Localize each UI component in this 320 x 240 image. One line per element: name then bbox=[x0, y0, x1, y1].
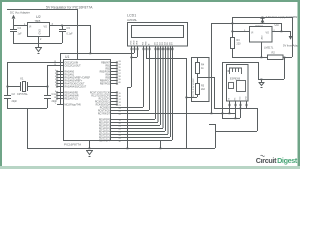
svg-text:3.3V down supply for ESP8266: 3.3V down supply for ESP8266 bbox=[266, 16, 301, 19]
junction C3 tap on 5V rail bbox=[61, 25, 63, 27]
pin labels tiny bbox=[229, 96, 248, 101]
svg-text:1uF: 1uF bbox=[18, 33, 23, 36]
capacitor C1 bottom lead bbox=[47, 99, 49, 108]
svg-text:RB3/PGM: RB3/PGM bbox=[100, 71, 110, 73]
svg-text:RD3/PSP3: RD3/PSP3 bbox=[99, 128, 111, 130]
wire lcd d3 bbox=[117, 51, 163, 129]
antenna meander bbox=[228, 68, 242, 74]
wire esp cs loop right bbox=[258, 57, 285, 80]
junction ESP pin3 on rail A bbox=[239, 108, 241, 110]
svg-text:RD7/PSP7: RD7/PSP7 bbox=[99, 140, 111, 142]
wire lcd vdd to rail bbox=[134, 51, 136, 53]
diode D1 leads bbox=[262, 17, 264, 23]
svg-text:RB6/PGC: RB6/PGC bbox=[100, 80, 110, 82]
svg-text:RC5/SDO: RC5/SDO bbox=[100, 107, 110, 109]
wire divider feed vertical bbox=[186, 58, 188, 148]
svg-text:OSC2/CLKOUT: OSC2/CLKOUT bbox=[65, 65, 82, 67]
power flag arrow up (DC Vcc Adapter) bbox=[12, 15, 16, 19]
MCU right pin labels bbox=[90, 62, 111, 142]
MCU left pin x marks bbox=[56, 71, 58, 100]
junction U3 adj node bbox=[260, 57, 262, 59]
svg-text:RC1/T1OSI/CCP2: RC1/T1OSI/CCP2 bbox=[91, 95, 110, 97]
wire lcd d1 bbox=[117, 51, 158, 123]
svg-text:2k2: 2k2 bbox=[201, 88, 206, 91]
svg-text:RA5/AN4/SS/C2OUT: RA5/AN4/SS/C2OUT bbox=[65, 85, 87, 88]
svg-text:U2: U2 bbox=[36, 15, 41, 19]
wire lcd vee bundle bbox=[131, 51, 138, 58]
junction VDD rail tee bbox=[89, 53, 91, 55]
wire lcd d5 bbox=[117, 51, 168, 135]
svg-text:U1: U1 bbox=[65, 55, 69, 59]
resistor R4 bbox=[196, 57, 210, 78]
LCD pin stubs bbox=[132, 46, 173, 51]
svg-text:LCD1: LCD1 bbox=[127, 14, 136, 18]
svg-text:VO: VO bbox=[266, 32, 270, 35]
junction ESP pin2 on rail2 bbox=[234, 118, 236, 120]
LCD pin labels vertical bbox=[131, 40, 174, 45]
wire 5v adapter rail bbox=[211, 23, 281, 25]
wire lcd vss down to ground bbox=[127, 51, 132, 148]
junction crystal right node bbox=[47, 86, 49, 88]
wire MCU vss down bbox=[89, 141, 91, 148]
svg-text:MCLR/Vpp/THV: MCLR/Vpp/THV bbox=[65, 104, 82, 106]
svg-text:PIC16F877A: PIC16F877A bbox=[64, 143, 81, 147]
svg-text:RA2/AN2/VREF-/CVREF: RA2/AN2/VREF-/CVREF bbox=[65, 76, 91, 79]
junction LCD VSS on ground bus bbox=[126, 148, 128, 150]
resistor divider box bbox=[192, 58, 210, 102]
wire regulator output 5V bbox=[50, 25, 90, 27]
capacitor C2 bottom lead bbox=[7, 99, 9, 108]
ground symbol under MCU bbox=[86, 151, 93, 157]
ground symbol right circuit bbox=[259, 79, 265, 88]
wire crystal left vertical bbox=[7, 62, 9, 95]
wire lcd d6 grounded bbox=[160, 140, 162, 148]
junction VSS-VEE join bbox=[130, 57, 132, 59]
svg-text:VI: VI bbox=[251, 32, 254, 35]
svg-text:RD4/PSP4: RD4/PSP4 bbox=[99, 131, 111, 133]
svg-text:C3: C3 bbox=[67, 26, 71, 30]
wire top 5V distribution line bbox=[7, 9, 77, 11]
capacitor C3 bbox=[59, 30, 66, 32]
svg-text:VI: VI bbox=[29, 26, 32, 29]
wire rail jog right bbox=[146, 51, 186, 59]
svg-text:RE0/AN5/RD: RE0/AN5/RD bbox=[65, 91, 79, 94]
wire 3.3v rail top right bbox=[232, 17, 292, 19]
wire lcd rw bbox=[117, 51, 150, 111]
ESP8266 module bbox=[227, 65, 249, 102]
svg-text:RB5: RB5 bbox=[106, 77, 111, 79]
svg-text:220: 220 bbox=[237, 43, 242, 46]
svg-text:VDD: VDD bbox=[134, 40, 136, 45]
wire divider bottom link bbox=[186, 94, 198, 98]
svg-text:RB2: RB2 bbox=[106, 68, 111, 70]
wire right side vertical from top line bbox=[292, 17, 294, 57]
svg-text:22pF: 22pF bbox=[12, 100, 18, 103]
svg-text:RB1: RB1 bbox=[106, 65, 111, 67]
junction RD6 ground tap bbox=[159, 148, 161, 150]
svg-text:RC3/SCK/SCL: RC3/SCK/SCL bbox=[95, 101, 111, 103]
svg-text:Cırcuit: Cırcuit bbox=[256, 156, 277, 165]
capacitor C4 body bbox=[10, 30, 17, 32]
esp pin4 drop bbox=[246, 101, 248, 108]
wire MCLR pullup vertical bbox=[60, 53, 62, 104]
svg-text:DC Vcc Adapter: DC Vcc Adapter bbox=[10, 11, 30, 15]
svg-text:RS: RS bbox=[143, 41, 145, 45]
junction right ground node bbox=[260, 79, 262, 81]
junction U3 input node bbox=[280, 31, 282, 33]
resistor R3 lower lead bbox=[232, 48, 234, 57]
wire lcd rs bbox=[117, 51, 144, 108]
wire osc2 bbox=[47, 65, 57, 67]
junction x211 on rx rail bbox=[210, 113, 212, 115]
svg-text:5V TO 3.3V LOGIC: 5V TO 3.3V LOGIC bbox=[193, 78, 195, 97]
wire esp loop right side bbox=[209, 108, 258, 148]
wire regulator ground rail bbox=[13, 37, 62, 47]
wire crystal horizontal bbox=[7, 86, 47, 88]
wire MCLR pin bbox=[57, 104, 63, 106]
svg-text:Digest: Digest bbox=[277, 156, 298, 165]
wire regulator input bbox=[13, 25, 27, 27]
regulator U3 LM317 bbox=[244, 23, 279, 42]
capacitor C1 body bbox=[44, 96, 51, 99]
svg-text:RA1/AN1: RA1/AN1 bbox=[65, 73, 75, 76]
wire u3 out pin right bbox=[272, 31, 290, 33]
svg-text:RC6/TX/CK: RC6/TX/CK bbox=[98, 110, 110, 112]
svg-text:RD0/PSP0: RD0/PSP0 bbox=[99, 119, 111, 121]
svg-text:RD2/PSP2: RD2/PSP2 bbox=[99, 125, 111, 127]
svg-text:VEE: VEE bbox=[137, 40, 139, 45]
MCU left pin labels bbox=[65, 62, 91, 106]
wire ground bus bottom bbox=[27, 148, 215, 150]
svg-text:C4: C4 bbox=[18, 26, 22, 30]
chip small bbox=[229, 83, 234, 89]
svg-text:5V Regulator for PIC16F877A: 5V Regulator for PIC16F877A bbox=[46, 6, 93, 10]
wire lcd d0 bbox=[117, 51, 156, 120]
wire adapter drop bbox=[282, 23, 291, 36]
logo CircuitDigest bbox=[256, 155, 298, 165]
svg-text:RC7/RX/DT: RC7/RX/DT bbox=[98, 113, 111, 115]
junction divider bottom node bbox=[185, 97, 187, 99]
wire bottom right rail bbox=[232, 57, 292, 59]
junction U3 output node bbox=[231, 31, 233, 33]
diode D1 bbox=[261, 19, 265, 23]
junction ESP pin1 on rx rail bbox=[228, 113, 230, 115]
svg-text:RD5/PSP5: RD5/PSP5 bbox=[99, 134, 111, 136]
power flag DC Vcc Adapter bbox=[13, 19, 15, 25]
capacitor C3 lead top bbox=[62, 25, 64, 29]
wire lcd d7 bbox=[117, 51, 171, 138]
wire 5V down to VDD rail bbox=[90, 25, 92, 53]
svg-text:CRYSTAL: CRYSTAL bbox=[17, 93, 28, 96]
wire crystal to ground bus bbox=[27, 108, 29, 148]
capacitor C4 lead top bbox=[13, 25, 15, 29]
svg-text:ADJ: ADJ bbox=[261, 35, 264, 39]
svg-text:U3: U3 bbox=[275, 23, 279, 27]
svg-text:5V from Adapter: 5V from Adapter bbox=[283, 43, 300, 47]
MCU left pin stubs bbox=[57, 63, 63, 99]
svg-text:7805: 7805 bbox=[35, 19, 41, 23]
regulator U2 7805 bbox=[24, 15, 54, 41]
svg-text:OSC1/CLKIN: OSC1/CLKIN bbox=[65, 62, 79, 64]
svg-text:R2: R2 bbox=[272, 51, 276, 55]
ESP pin x marks bbox=[229, 104, 248, 106]
capacitor C4 lead bottom bbox=[13, 32, 15, 43]
junction 5V adapter rail tee bbox=[231, 23, 233, 25]
MCU right pin x marks (RB unconnected) bbox=[116, 62, 118, 106]
svg-text:RC0/T1OSO/T1CKI: RC0/T1OSO/T1CKI bbox=[90, 92, 111, 94]
resistor R5 bbox=[196, 77, 200, 95]
svg-text:RC2/CCP1: RC2/CCP1 bbox=[99, 98, 111, 100]
resistor R3 bbox=[231, 38, 235, 49]
svg-text:RD6/PSP6: RD6/PSP6 bbox=[99, 137, 111, 139]
svg-text:RB4: RB4 bbox=[106, 74, 111, 76]
wire u3 input pin left bbox=[232, 31, 249, 33]
LCD pin x marks bbox=[131, 48, 174, 50]
wire esp pin1 bbox=[229, 101, 231, 113]
svg-text:RD1/PSP1: RD1/PSP1 bbox=[99, 122, 111, 124]
svg-text:RA0/AN0: RA0/AN0 bbox=[65, 70, 75, 73]
svg-text:0.1uF: 0.1uF bbox=[67, 33, 74, 36]
wire crystal ground rail bbox=[7, 108, 47, 110]
svg-text:GND: GND bbox=[246, 96, 248, 101]
svg-text:RB0/INT: RB0/INT bbox=[101, 62, 110, 64]
svg-text:RE2/AN7/CS: RE2/AN7/CS bbox=[65, 97, 79, 100]
wire esp top link bbox=[222, 62, 258, 64]
wire VDD drop to MCU top bbox=[77, 9, 79, 59]
svg-text:VSS: VSS bbox=[131, 40, 133, 45]
wire 5v to esp area vertical bbox=[211, 23, 213, 113]
junction x222 crossing bbox=[221, 113, 223, 115]
green frame bbox=[0, 0, 300, 2]
junction diode cathode on 3V3 rail bbox=[261, 17, 263, 19]
power arrow down (5V from Adapter) bbox=[289, 36, 293, 40]
svg-text:RC4/SDI/SDA: RC4/SDI/SDA bbox=[96, 103, 111, 106]
svg-text:LM016L: LM016L bbox=[127, 18, 138, 22]
wire lcd d4 bbox=[117, 51, 166, 132]
junction R2 right node bbox=[283, 57, 285, 59]
svg-text:RA3/AN3/VREF+: RA3/AN3/VREF+ bbox=[65, 79, 83, 82]
ground symbol under 7805 bbox=[35, 48, 42, 54]
MCU pin numbers bbox=[54, 61, 57, 105]
wire crystal right vertical bbox=[47, 65, 49, 95]
wire lm317 left vertical bbox=[232, 17, 234, 37]
chip big bbox=[237, 81, 246, 92]
svg-text:LM317L: LM317L bbox=[264, 46, 274, 50]
wire esp pin2 bbox=[235, 101, 237, 118]
wire pic rx rail long bbox=[117, 113, 235, 115]
junction crystal left node bbox=[7, 86, 9, 88]
LCD1 LM016L bbox=[127, 14, 188, 47]
svg-text:RA4/T0CKI/C1OUT: RA4/T0CKI/C1OUT bbox=[65, 82, 86, 85]
crystal X1 bbox=[21, 82, 28, 92]
wire VDD rail y53 bbox=[60, 53, 134, 55]
junction MCU VSS on ground bus bbox=[88, 148, 90, 150]
wire lcd d2 bbox=[117, 51, 161, 126]
svg-text:RB7/PGD: RB7/PGD bbox=[100, 83, 110, 85]
svg-text:VO: VO bbox=[44, 26, 48, 29]
capacitor C2 bbox=[4, 96, 11, 99]
svg-text:RE1/AN6/WR: RE1/AN6/WR bbox=[65, 94, 79, 97]
capacitor C3 lead bottom bbox=[62, 32, 64, 43]
MCU U1 PIC16F877A bbox=[64, 55, 111, 147]
svg-text:X1: X1 bbox=[20, 77, 24, 81]
svg-text:C2: C2 bbox=[12, 92, 16, 96]
wire u3 adj down bbox=[261, 42, 263, 57]
wire osc1 bbox=[7, 62, 57, 64]
wire esp pin4 loop bbox=[214, 108, 257, 110]
wire esp rail2 bbox=[222, 101, 241, 119]
wire esp left drop bbox=[222, 62, 224, 118]
resistor R2 bbox=[268, 55, 284, 60]
MCU right pin stubs bbox=[111, 63, 117, 141]
svg-text:GND: GND bbox=[39, 29, 42, 35]
wire divider mid tap bbox=[209, 77, 215, 108]
